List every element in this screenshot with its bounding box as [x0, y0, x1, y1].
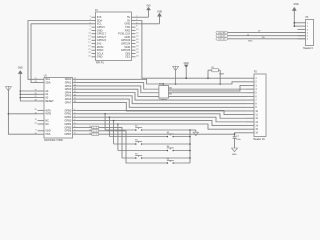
svg-text:19: 19 — [88, 46, 90, 48]
svg-text:VDD: VDD — [45, 129, 51, 133]
svg-text:3: 3 — [74, 116, 75, 118]
svg-text:GPB2: GPB2 — [65, 115, 72, 119]
svg-text:GPB6: GPB6 — [65, 129, 72, 133]
svg-text:100R: 100R — [219, 74, 224, 76]
svg-text:Header 16: Header 16 — [253, 138, 265, 141]
svg-text:16: 16 — [136, 39, 138, 41]
svg-text:INTB: INTB — [45, 112, 51, 116]
svg-text:19: 19 — [34, 112, 36, 114]
svg-text:GND: GND — [293, 4, 298, 6]
svg-text:1: 1 — [89, 16, 90, 18]
svg-text:23: 23 — [74, 84, 76, 86]
svg-text:GPB5: GPB5 — [65, 125, 72, 129]
svg-text:15: 15 — [88, 39, 90, 41]
svg-text:9: 9 — [36, 129, 37, 131]
svg-text:6: 6 — [74, 126, 75, 128]
svg-text:2: 2 — [74, 112, 75, 114]
svg-text:Header 6: Header 6 — [303, 47, 314, 50]
svg-text:17: 17 — [88, 42, 90, 44]
svg-text:22: 22 — [74, 81, 76, 83]
svg-text:GND: GND — [232, 154, 237, 156]
svg-text:22: 22 — [136, 49, 138, 51]
svg-text:26: 26 — [74, 94, 76, 96]
svg-text:GPB1: GPB1 — [65, 112, 72, 116]
svg-text:23: 23 — [88, 52, 90, 54]
svg-text:15: 15 — [34, 90, 36, 92]
svg-text:10: 10 — [34, 133, 36, 135]
svg-text:18: 18 — [136, 42, 138, 44]
svg-text:21: 21 — [74, 78, 76, 80]
svg-text:20: 20 — [34, 109, 36, 111]
svg-text:8: 8 — [74, 133, 75, 135]
svg-text:GND: GND — [157, 11, 162, 13]
svg-text:25: 25 — [88, 55, 90, 57]
svg-text:GND: GND — [18, 68, 23, 70]
svg-text:Contrast: Contrast — [159, 98, 167, 101]
svg-text:RESET: RESET — [45, 99, 54, 103]
svg-text:11: 11 — [35, 119, 37, 121]
svg-text:RPi P1: RPi P1 — [96, 62, 104, 65]
svg-text:7: 7 — [74, 129, 75, 131]
svg-text:GPB7: GPB7 — [65, 132, 72, 136]
svg-text:GPB4: GPB4 — [65, 122, 72, 126]
svg-text:GND: GND — [248, 40, 253, 42]
svg-text:18: 18 — [34, 100, 36, 102]
svg-text:4: 4 — [74, 119, 75, 121]
svg-text:21: 21 — [88, 49, 90, 51]
svg-text:25: 25 — [74, 91, 76, 93]
svg-text:GPB3: GPB3 — [65, 119, 72, 123]
svg-text:10: 10 — [136, 29, 138, 31]
svg-text:8: 8 — [136, 26, 137, 28]
svg-text:5V0: 5V0 — [146, 5, 151, 7]
svg-text:12: 12 — [34, 78, 36, 80]
svg-text:24: 24 — [74, 88, 76, 90]
svg-text:MCP23017 KBD: MCP23017 KBD — [44, 139, 63, 142]
svg-text:13: 13 — [34, 81, 36, 83]
svg-text:20: 20 — [136, 46, 138, 48]
svg-text:1k: 1k — [247, 34, 249, 36]
svg-text:11: 11 — [89, 32, 91, 34]
svg-text:1k: 1k — [89, 126, 91, 128]
svg-text:GND: GND — [97, 55, 103, 59]
svg-text:12: 12 — [136, 32, 138, 34]
svg-text:VSS: VSS — [45, 132, 50, 136]
svg-text:9: 9 — [89, 29, 90, 31]
svg-text:24: 24 — [136, 52, 138, 54]
svg-text:NC: NC — [45, 119, 49, 123]
svg-text:28: 28 — [74, 101, 76, 103]
svg-text:INTA: INTA — [45, 108, 51, 112]
svg-text:GPB0: GPB0 — [65, 108, 72, 112]
svg-text:1k: 1k — [89, 133, 91, 135]
svg-text:14: 14 — [136, 36, 138, 38]
svg-text:NC: NC — [45, 122, 49, 126]
svg-text:26: 26 — [136, 55, 138, 57]
svg-text:1: 1 — [74, 109, 75, 111]
svg-text:1k: 1k — [89, 130, 91, 132]
svg-text:GPA7: GPA7 — [65, 100, 72, 104]
svg-text:LCD_D4: LCD_D4 — [218, 39, 225, 41]
svg-text:16: 16 — [34, 93, 36, 95]
svg-text:SDA: SDA — [45, 81, 51, 85]
svg-text:17: 17 — [34, 96, 36, 98]
svg-text:CE1: CE1 — [125, 55, 131, 59]
svg-text:5: 5 — [74, 123, 75, 125]
svg-text:14: 14 — [34, 123, 36, 125]
svg-text:13: 13 — [88, 36, 90, 38]
svg-text:7: 7 — [89, 26, 90, 28]
svg-text:10k: 10k — [262, 37, 265, 39]
svg-text:27: 27 — [74, 98, 76, 100]
